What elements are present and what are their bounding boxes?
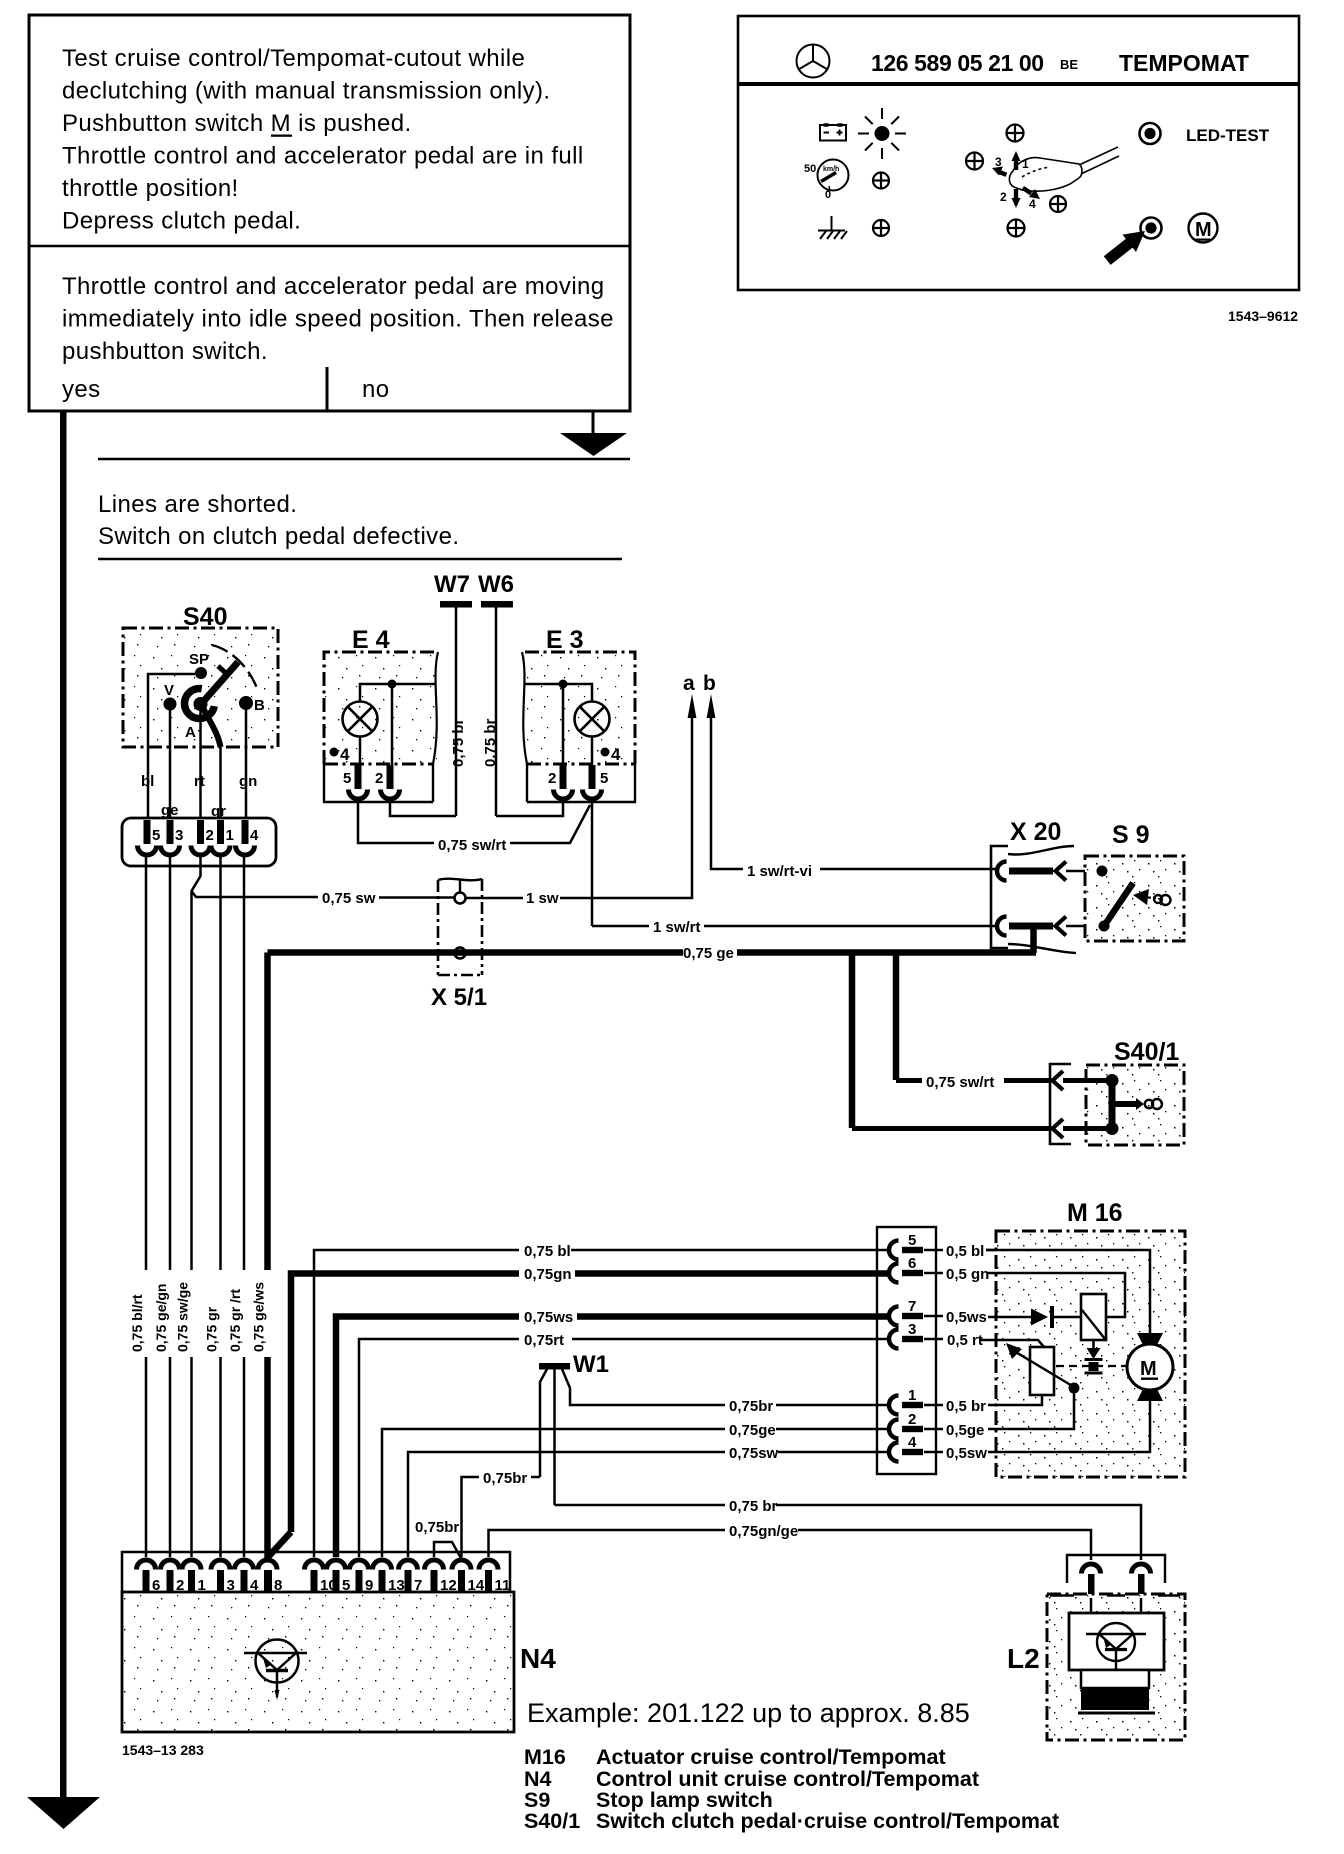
svg-text:Test cruise control/Tempomat-c: Test cruise control/Tempomat-cutout whil…	[62, 45, 525, 72]
svg-text:BE: BE	[1060, 57, 1078, 72]
svg-text:yes: yes	[62, 376, 101, 403]
svg-text:1 sw: 1 sw	[526, 890, 559, 907]
svg-text:2: 2	[1000, 190, 1007, 204]
svg-text:0,75 sw/rt: 0,75 sw/rt	[438, 837, 506, 854]
svg-text:5: 5	[152, 827, 160, 844]
svg-text:N4: N4	[520, 1643, 556, 1674]
svg-text:0,75 br: 0,75 br	[482, 718, 499, 767]
svg-text:5: 5	[908, 1232, 916, 1249]
svg-text:S40/1: S40/1	[524, 1809, 580, 1833]
svg-text:0,5 bl: 0,5 bl	[946, 1243, 984, 1260]
svg-text:2: 2	[908, 1411, 916, 1428]
svg-text:Example: 201.122 up to approx.: Example: 201.122 up to approx. 8.85	[527, 1698, 970, 1728]
svg-text:0,75 br: 0,75 br	[450, 718, 467, 767]
svg-text:0,5ws: 0,5ws	[946, 1309, 987, 1326]
svg-text:5: 5	[342, 1577, 350, 1594]
svg-text:2: 2	[206, 827, 214, 844]
svg-text:0,5ge: 0,5ge	[946, 1422, 984, 1439]
svg-text:throttle position!: throttle position!	[62, 175, 239, 202]
svg-text:TEMPOMAT: TEMPOMAT	[1119, 50, 1249, 76]
svg-text:12: 12	[440, 1577, 457, 1594]
svg-text:6: 6	[908, 1255, 916, 1272]
svg-text:0,75rt: 0,75rt	[524, 1332, 564, 1349]
svg-text:X 5/1: X 5/1	[431, 984, 487, 1011]
svg-text:E 3: E 3	[546, 626, 584, 654]
svg-text:1: 1	[198, 1577, 206, 1594]
svg-text:SP: SP	[189, 651, 209, 668]
svg-text:2: 2	[176, 1577, 184, 1594]
svg-text:M16: M16	[524, 1745, 566, 1769]
svg-text:4: 4	[340, 745, 350, 764]
svg-text:4: 4	[250, 827, 259, 844]
svg-text:3: 3	[227, 1577, 235, 1594]
svg-text:1: 1	[226, 827, 234, 844]
svg-text:declutching (with manual trans: declutching (with manual transmission on…	[62, 78, 550, 105]
svg-text:1: 1	[908, 1387, 916, 1404]
svg-text:rt: rt	[194, 773, 205, 790]
svg-text:Switch clutch pedal·cruise con: Switch clutch pedal·cruise control/Tempo…	[596, 1809, 1059, 1833]
svg-text:LED-TEST: LED-TEST	[1186, 126, 1270, 145]
svg-text:3: 3	[175, 827, 183, 844]
svg-text:0,75 sw/rt: 0,75 sw/rt	[926, 1074, 994, 1091]
svg-text:A: A	[185, 724, 196, 741]
svg-text:b: b	[703, 672, 716, 695]
svg-text:S 9: S 9	[1112, 821, 1150, 849]
svg-text:0,75 gr /rt: 0,75 gr /rt	[227, 1289, 243, 1352]
svg-text:1543–13 283: 1543–13 283	[122, 1742, 204, 1758]
svg-text:W7: W7	[434, 571, 470, 598]
svg-text:5: 5	[600, 770, 608, 787]
svg-text:1 sw/rt-vi: 1 sw/rt-vi	[747, 863, 812, 880]
svg-text:0,75 ge/ws: 0,75 ge/ws	[251, 1282, 267, 1352]
svg-text:3: 3	[908, 1321, 916, 1338]
svg-text:0,75 ge: 0,75 ge	[683, 945, 734, 962]
svg-text:4: 4	[908, 1434, 917, 1451]
svg-text:0,5 gn: 0,5 gn	[946, 1266, 989, 1283]
svg-text:6: 6	[152, 1577, 160, 1594]
svg-text:0,5 br: 0,5 br	[946, 1398, 986, 1415]
svg-text:X 20: X 20	[1010, 818, 1061, 846]
svg-text:9: 9	[365, 1577, 373, 1594]
svg-text:0,75br: 0,75br	[483, 1470, 527, 1487]
svg-text:0,75gn: 0,75gn	[524, 1266, 572, 1283]
svg-text:no: no	[362, 376, 390, 403]
svg-text:E 4: E 4	[352, 626, 390, 654]
svg-text:0,75 ge/gn: 0,75 ge/gn	[153, 1284, 169, 1352]
svg-text:11: 11	[495, 1577, 511, 1594]
svg-text:Depress clutch pedal.: Depress clutch pedal.	[62, 208, 301, 235]
svg-text:0,75sw: 0,75sw	[729, 1445, 779, 1462]
svg-text:W6: W6	[478, 571, 514, 598]
svg-text:W1: W1	[573, 1351, 609, 1378]
svg-text:0,75br: 0,75br	[415, 1519, 459, 1536]
svg-text:B: B	[254, 697, 265, 714]
svg-text:Switch on clutch pedal defecti: Switch on clutch pedal defective.	[98, 523, 459, 550]
svg-text:0,75br: 0,75br	[729, 1398, 773, 1415]
svg-text:Pushbutton switch M is pushed.: Pushbutton switch M is pushed.	[62, 110, 412, 137]
svg-text:126 589 05 21 00: 126 589 05 21 00	[871, 50, 1044, 76]
svg-text:gn: gn	[239, 773, 257, 790]
svg-text:0,75ge: 0,75ge	[729, 1422, 776, 1439]
svg-text:5: 5	[343, 770, 351, 787]
svg-text:pushbutton switch.: pushbutton switch.	[62, 338, 268, 365]
svg-text:Throttle control and accelerat: Throttle control and accelerator pedal a…	[62, 143, 584, 170]
svg-text:0,5 rt: 0,5 rt	[947, 1332, 983, 1349]
svg-text:2: 2	[375, 770, 383, 787]
svg-text:4: 4	[1029, 197, 1036, 211]
svg-text:0,75 br: 0,75 br	[729, 1498, 778, 1515]
svg-text:0,75 bl/rt: 0,75 bl/rt	[129, 1294, 145, 1352]
svg-text:1: 1	[1022, 157, 1029, 171]
svg-text:S40/1: S40/1	[1114, 1038, 1179, 1066]
svg-text:M: M	[1195, 219, 1212, 241]
svg-text:0,5sw: 0,5sw	[946, 1445, 987, 1462]
svg-text:0,75 bl: 0,75 bl	[524, 1243, 571, 1260]
svg-text:7: 7	[414, 1577, 422, 1594]
svg-text:a: a	[683, 672, 695, 695]
svg-text:13: 13	[388, 1577, 405, 1594]
svg-text:3: 3	[995, 155, 1002, 169]
svg-text:bl: bl	[141, 773, 154, 790]
svg-text:km/h: km/h	[823, 166, 839, 173]
svg-text:50: 50	[804, 163, 816, 175]
svg-text:L2: L2	[1007, 1643, 1040, 1674]
svg-text:M: M	[1140, 1358, 1157, 1380]
svg-text:4: 4	[611, 745, 621, 764]
svg-text:Lines are shorted.: Lines are shorted.	[98, 491, 297, 518]
svg-text:M 16: M 16	[1067, 1199, 1123, 1227]
svg-text:Actuator cruise control/Tempom: Actuator cruise control/Tempomat	[596, 1745, 946, 1769]
svg-text:7: 7	[908, 1298, 916, 1315]
svg-text:0,75 sw: 0,75 sw	[322, 890, 376, 907]
svg-text:0,75ws: 0,75ws	[524, 1309, 573, 1326]
svg-text:14: 14	[468, 1577, 485, 1594]
svg-text:4: 4	[250, 1577, 259, 1594]
svg-text:1 sw/rt: 1 sw/rt	[653, 919, 701, 936]
svg-text:V: V	[164, 682, 174, 699]
svg-text:0,75 gr: 0,75 gr	[204, 1306, 220, 1352]
svg-text:Throttle control and accelerat: Throttle control and accelerator pedal a…	[62, 273, 605, 300]
svg-text:2: 2	[548, 770, 556, 787]
svg-text:0,75 sw/ge: 0,75 sw/ge	[175, 1282, 191, 1352]
svg-text:8: 8	[274, 1577, 282, 1594]
svg-text:ge: ge	[161, 802, 179, 819]
svg-text:immediately into idle speed po: immediately into idle speed position. Th…	[62, 306, 614, 333]
svg-text:1543–9612: 1543–9612	[1228, 308, 1298, 324]
svg-text:0,75gn/ge: 0,75gn/ge	[729, 1523, 798, 1540]
